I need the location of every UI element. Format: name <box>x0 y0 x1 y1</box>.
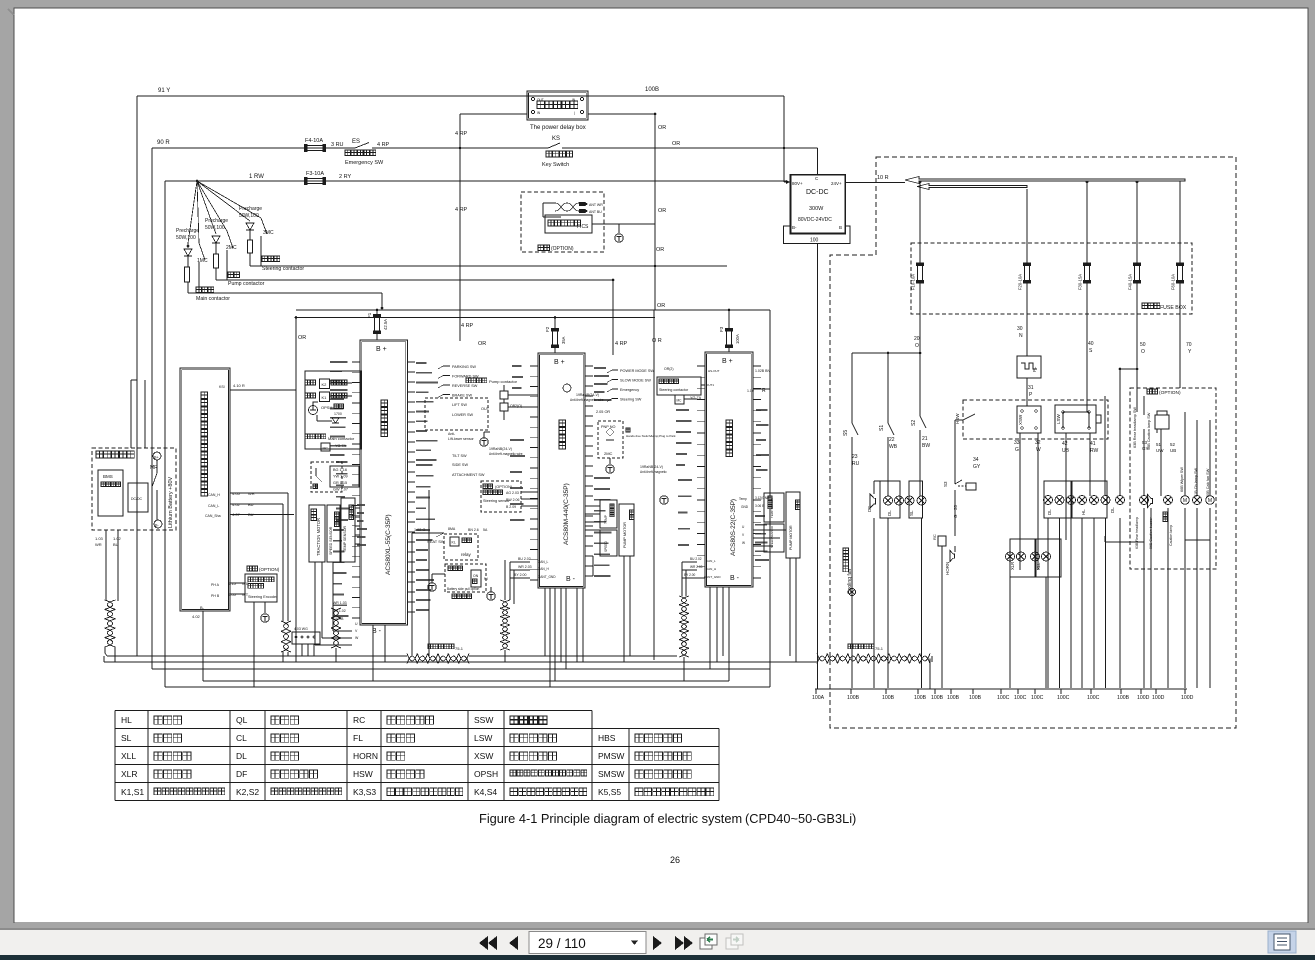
horn speaker <box>950 551 955 562</box>
temp sensor box <box>341 498 355 562</box>
precharge branch steering contactor <box>197 181 250 221</box>
svg-text:100D: 100D <box>1181 695 1194 701</box>
svg-text:21: 21 <box>922 436 928 442</box>
svg-text:F40-15A: F40-15A <box>1128 274 1133 290</box>
svg-text:DC/DC: DC/DC <box>131 497 143 501</box>
wire top bus right segment <box>588 95 784 97</box>
svg-text:Pump contactor: Pump contactor <box>489 379 518 384</box>
svg-text:DF: DF <box>236 769 247 779</box>
svg-text:63B Rear headlamp: 63B Rear headlamp <box>1135 517 1139 549</box>
lithium battery assembly dashed box <box>92 448 176 530</box>
node 1RW fanout <box>196 180 199 183</box>
junction dots right <box>887 352 1122 371</box>
svg-text:4 RP: 4 RP <box>461 323 474 329</box>
headlamp group DL HL <box>1044 481 1071 518</box>
svg-text:B-: B- <box>200 605 205 610</box>
svg-text:CAN_H: CAN_H <box>706 567 716 571</box>
toolbar prev page button <box>509 936 518 950</box>
svg-text:4.05: 4.05 <box>232 491 241 496</box>
svg-text:O R: O R <box>652 338 662 344</box>
FICS option label <box>538 245 550 251</box>
contact 3MC <box>197 181 261 218</box>
svg-text:UW: UW <box>1156 448 1164 453</box>
svg-text:50: 50 <box>1140 342 1146 348</box>
battery CAN twisted pair <box>105 600 116 647</box>
svg-text:FICS: FICS <box>577 224 589 230</box>
svg-text:100A: 100A <box>812 695 825 701</box>
svg-text:75-1: 75-1 <box>875 646 884 651</box>
relay K2 box <box>320 379 330 389</box>
svg-text:PH B: PH B <box>211 594 220 598</box>
svg-text:WR: WR <box>95 542 102 547</box>
svg-text:4 RP: 4 RP <box>455 131 468 137</box>
controller U1 right pins <box>408 362 416 612</box>
lamp group DF DL SL <box>870 494 875 508</box>
svg-text:Emergency SW: Emergency SW <box>345 160 384 166</box>
svg-text:SEAT SW: SEAT SW <box>427 539 445 544</box>
svg-text:35: 35 <box>953 504 958 510</box>
svg-text:K2: K2 <box>322 382 328 387</box>
svg-text:MC: MC <box>323 447 329 451</box>
svg-text:50W,100: 50W,100 <box>176 235 196 241</box>
svg-text:The power delay box: The power delay box <box>530 125 586 131</box>
svg-text:1.10: 1.10 <box>747 389 754 393</box>
svg-text:relay: relay <box>461 552 472 557</box>
controller U3 vertical label <box>726 420 733 457</box>
svg-text:Steering contactor: Steering contactor <box>659 388 689 392</box>
svg-text:WR 2.03: WR 2.03 <box>690 565 703 569</box>
OPSH pressure switch <box>309 406 318 415</box>
pump contactor label <box>228 272 240 278</box>
controller U2 right pins <box>585 366 593 576</box>
U3 B- wire down <box>728 587 730 681</box>
DC-DC output extension <box>784 226 850 244</box>
svg-text:OUT: OUT <box>481 407 490 411</box>
ground symbols seat cluster <box>428 583 436 591</box>
svg-text:4 RP: 4 RP <box>455 207 468 213</box>
svg-text:100: 100 <box>810 238 819 244</box>
svg-text:WR 1.03: WR 1.03 <box>333 601 347 605</box>
rail x770 down <box>769 310 771 687</box>
contactor coil 1MC box <box>321 443 330 451</box>
svg-text:75-1: 75-1 <box>455 646 464 651</box>
coil below traction <box>331 608 341 648</box>
U2 bottom wire <box>560 588 562 662</box>
svg-text:1700: 1700 <box>334 412 342 416</box>
svg-text:Lift-lower sensor: Lift-lower sensor <box>448 437 475 441</box>
resistor RC <box>938 536 946 546</box>
toolbar first page button <box>479 936 497 950</box>
svg-text:50W,100: 50W,100 <box>239 213 259 219</box>
svg-text:26: 26 <box>670 855 680 865</box>
svg-text:WR: WR <box>248 491 255 496</box>
OR rail U3 <box>653 310 655 660</box>
svg-text:100C: 100C <box>1087 695 1100 701</box>
fuse F4-10A <box>307 146 323 151</box>
svg-text:OR: OR <box>478 341 486 347</box>
wire seat switch <box>412 532 444 534</box>
svg-text:ACS80XL-55(C-35P): ACS80XL-55(C-35P) <box>385 514 392 575</box>
svg-text:Key Switch: Key Switch <box>542 162 569 168</box>
svg-text:PUMP MOTOR: PUMP MOTOR <box>623 522 627 548</box>
key switch KS contact <box>548 143 560 148</box>
relay K1 box <box>320 392 330 402</box>
svg-text:OR: OR <box>658 208 666 214</box>
wires below switch group <box>1019 433 1021 570</box>
svg-text:LIFT SW: LIFT SW <box>452 403 467 407</box>
svg-text:CAN_L: CAN_L <box>706 559 716 563</box>
fuse box dashed <box>911 243 1192 314</box>
svg-text:S2: S2 <box>911 420 917 426</box>
svg-text:KL: KL <box>452 541 456 545</box>
svg-text:B -: B - <box>566 576 576 583</box>
traction motor box <box>309 505 325 562</box>
svg-text:24V+: 24V+ <box>831 181 842 186</box>
wire into DC-DC C pin <box>817 148 819 175</box>
svg-text:4 RP: 4 RP <box>377 142 390 148</box>
svg-text:53: 53 <box>1142 440 1148 445</box>
lamp group wires down <box>873 518 875 688</box>
verticals from controllers to bus <box>295 660 297 662</box>
svg-text:K4,S4: K4,S4 <box>474 787 497 797</box>
pump motor sensor boxes <box>600 500 617 528</box>
svg-text:HSW: HSW <box>955 413 960 424</box>
svg-text:60B Cab fan SW: 60B Cab fan SW <box>1206 468 1210 497</box>
svg-text:DL: DL <box>1110 507 1115 513</box>
controller U2 pump box <box>538 353 585 588</box>
bottom node labels <box>815 689 817 694</box>
wire 70 Y rail <box>1179 281 1181 388</box>
svg-text:FL: FL <box>1032 366 1037 372</box>
svg-text:OR: OR <box>298 335 306 341</box>
svg-text:29 / 110: 29 / 110 <box>538 936 586 951</box>
svg-text:WB: WB <box>889 444 898 450</box>
svg-text:RU: RU <box>852 461 860 467</box>
FICS ground <box>615 234 623 242</box>
svg-text:Anti-theft-magnetic wire: Anti-theft-magnetic wire <box>570 398 604 402</box>
svg-text:GY: GY <box>973 464 981 470</box>
svg-text:SSW: SSW <box>474 715 493 725</box>
bottom bus 3 <box>152 668 770 670</box>
svg-text:Battery side pull option: Battery side pull option <box>447 587 479 591</box>
svg-text:ANT BU: ANT BU <box>589 210 602 214</box>
svg-text:100C: 100C <box>1031 695 1044 701</box>
svg-text:XLR: XLR <box>121 769 138 779</box>
turn lamp pair XLL <box>1035 539 1061 577</box>
interlock dashed box <box>311 462 342 492</box>
svg-text:TEMP: TEMP <box>604 515 608 524</box>
svg-text:B -: B - <box>730 575 740 582</box>
svg-text:DC-DC: DC-DC <box>806 189 829 196</box>
svg-text:4.05: 4.05 <box>228 592 237 597</box>
svg-text:PUMP MOTOR: PUMP MOTOR <box>789 525 793 550</box>
svg-text:DL: DL <box>1047 509 1052 515</box>
bus arrow main <box>905 177 1185 184</box>
verticals under U3 <box>709 587 711 669</box>
svg-text:100B: 100B <box>931 695 944 701</box>
battery terminals <box>153 452 161 460</box>
svg-text:BRAKE SW: BRAKE SW <box>452 394 472 398</box>
page number input <box>529 932 646 954</box>
switch S2 <box>919 414 921 416</box>
fuse F20-10A <box>1025 266 1030 281</box>
bus verticals left <box>103 656 105 662</box>
svg-text:F10-10A: F10-10A <box>911 274 916 290</box>
svg-text:Steering contactor: Steering contactor <box>262 266 304 272</box>
svg-text:Emergency: Emergency <box>620 388 639 392</box>
svg-text:BG 1.16: BG 1.16 <box>333 468 347 472</box>
svg-text:HL: HL <box>121 715 132 725</box>
svg-text:SPEED: SPEED <box>604 540 608 552</box>
svg-text:23: 23 <box>852 454 858 460</box>
contact 1MC <box>197 181 199 243</box>
svg-text:42: 42 <box>1062 441 1068 447</box>
svg-text:4.15: 4.15 <box>228 581 237 586</box>
svg-text:100D: 100D <box>1137 695 1150 701</box>
diode pair <box>332 418 339 423</box>
flasher FL box <box>1017 356 1041 378</box>
svg-text:RW: RW <box>1090 448 1099 454</box>
svg-text:XLL: XLL <box>121 751 136 761</box>
svg-text:BY 2.00: BY 2.00 <box>514 573 526 577</box>
PNP ground <box>606 465 614 473</box>
wire branch to S5 <box>852 352 920 354</box>
controller U3 steering box <box>705 352 753 587</box>
svg-text:OUT1: OUT1 <box>706 383 714 387</box>
svg-text:3.06 B: 3.06 B <box>755 504 764 508</box>
svg-text:POWER MODE SW: POWER MODE SW <box>620 369 654 373</box>
svg-text:CANT_GND: CANT_GND <box>538 575 556 579</box>
svg-text:CAN_Sha: CAN_Sha <box>205 514 221 518</box>
svg-text:MC: MC <box>677 399 683 403</box>
traction motor bottom wires <box>314 562 316 645</box>
svg-text:100D: 100D <box>1152 695 1165 701</box>
ferrite chain right <box>817 654 930 664</box>
svg-text:3MC: 3MC <box>263 230 274 236</box>
switch box LSW <box>1055 405 1096 433</box>
svg-text:SMSW: SMSW <box>598 769 624 779</box>
sidebar toggle button right <box>1268 931 1296 953</box>
toolbar prev view icon <box>700 934 717 949</box>
lamp DL single <box>1116 496 1125 505</box>
svg-text:1.03: 1.03 <box>95 536 104 541</box>
fuse F40-15A <box>1135 266 1140 281</box>
bus arrow secondary <box>917 184 1027 190</box>
svg-text:F20-10A: F20-10A <box>1018 274 1023 290</box>
svg-text:K1: K1 <box>322 395 328 400</box>
display vertical label <box>201 392 208 496</box>
svg-text:Precharge: Precharge <box>205 218 228 224</box>
fuse F1 42.5A <box>375 317 380 331</box>
svg-text:BU: BU <box>248 502 254 507</box>
svg-text:34: 34 <box>973 457 979 463</box>
svg-text:XLL: XLL <box>1036 562 1041 570</box>
svg-text:Figure 4-1 Principle diagram o: Figure 4-1 Principle diagram of electric… <box>479 811 742 826</box>
BMS box <box>98 470 123 516</box>
toolbar next view icon disabled <box>726 934 743 949</box>
wire 40 S rail <box>1086 281 1088 412</box>
svg-text:2 RY: 2 RY <box>339 174 351 180</box>
svg-text:Hands-free Switch&amp;Plug to: Hands-free Switch&amp;Plug to Park <box>626 434 676 438</box>
svg-text:B +: B + <box>554 359 565 366</box>
svg-text:W: W <box>1036 447 1041 453</box>
svg-text:40: 40 <box>1088 341 1094 347</box>
switch S5 <box>851 421 853 423</box>
svg-text:HL: HL <box>1081 509 1086 515</box>
svg-text:100B: 100B <box>645 87 659 93</box>
DCDC small box <box>128 483 148 512</box>
option vertical wires <box>1143 429 1145 496</box>
svg-text:BU 2.02: BU 2.02 <box>518 557 531 561</box>
svg-text:F3-10A: F3-10A <box>306 171 324 177</box>
svg-text:SPEED SENSOR: SPEED SENSOR <box>329 526 333 555</box>
switch box XSW <box>1017 406 1041 433</box>
fuse F3 100A <box>727 331 732 345</box>
svg-text:(OPTION): (OPTION) <box>259 567 280 572</box>
wire power delay bottom <box>460 113 527 115</box>
svg-text:HS-OUT: HS-OUT <box>708 369 720 373</box>
svg-text:B +: B + <box>722 358 733 365</box>
svg-text:(CPD40~50-GB3Li): (CPD40~50-GB3Li) <box>745 811 856 826</box>
bus connect right chain <box>931 656 933 662</box>
svg-text:GND: GND <box>741 505 749 509</box>
status bar bottom <box>0 955 1315 960</box>
svg-text:G: G <box>1015 447 1019 453</box>
steering encoder ground <box>261 614 269 622</box>
svg-text:100C: 100C <box>1014 695 1027 701</box>
svg-text:OR(2): OR(2) <box>664 367 674 371</box>
svg-text:CAN_H: CAN_H <box>208 493 220 497</box>
svg-text:YG 7A: YG 7A <box>690 396 702 400</box>
svg-text:SPEED SENSOR: SPEED SENSOR <box>770 526 774 548</box>
svg-text:96B Caution lamp SW: 96B Caution lamp SW <box>1147 412 1151 450</box>
caution lamp group <box>1140 496 1149 505</box>
svg-text:CL: CL <box>236 733 247 743</box>
svg-text:B-: B- <box>792 225 797 230</box>
wire FICS to OR rail <box>604 223 655 225</box>
controller U1 traction box <box>360 340 408 625</box>
svg-text:42.5A: 42.5A <box>383 319 388 330</box>
speed sensor box <box>327 505 340 562</box>
U2 right pin rows mid <box>594 478 611 576</box>
fuse F30-15A <box>1085 266 1090 281</box>
svg-text:35A: 35A <box>561 336 566 344</box>
svg-text:41: 41 <box>1090 441 1096 447</box>
svg-text:OR: OR <box>656 247 664 253</box>
fuse F3-10A <box>307 179 323 184</box>
svg-text:Steering Encoder: Steering Encoder <box>248 595 278 599</box>
svg-text:19RaNB(24-V): 19RaNB(24-V) <box>489 447 512 451</box>
svg-text:SL: SL <box>121 733 132 743</box>
bottom bus 5 <box>165 686 770 688</box>
option dashed box right <box>1130 388 1216 569</box>
svg-text:Anti-: Anti- <box>448 432 456 436</box>
svg-text:SL: SL <box>909 510 914 516</box>
svg-text:ATTACHMENT SW: ATTACHMENT SW <box>452 473 485 477</box>
svg-text:100A: 100A <box>735 334 740 344</box>
svg-text:2MC: 2MC <box>604 451 613 456</box>
pump motor wires down mid <box>623 556 625 662</box>
svg-text:4.02: 4.02 <box>232 502 241 507</box>
wire left rail 1RW down <box>164 181 166 687</box>
toolbar background <box>0 923 1315 930</box>
svg-text:XLR: XLR <box>1010 562 1015 570</box>
wire pump contactor to right <box>227 279 613 281</box>
contact 2MC <box>197 181 227 231</box>
fuse F10-10A <box>918 266 923 281</box>
svg-text:DL: DL <box>236 751 247 761</box>
option relay block <box>1155 415 1169 429</box>
svg-text:CAN_L: CAN_L <box>538 560 549 564</box>
svg-text:TEMP SENSOR: TEMP SENSOR <box>770 498 774 518</box>
OR rail right of delay box <box>654 114 656 310</box>
svg-text:K3,S3: K3,S3 <box>353 787 376 797</box>
svg-text:1.02 G: 1.02 G <box>414 528 425 532</box>
svg-text:33: 33 <box>1014 440 1020 446</box>
svg-text:F2: F2 <box>545 326 550 332</box>
FICS option dashed box <box>521 192 604 252</box>
power delay box <box>527 91 588 120</box>
svg-text:F30-15A: F30-15A <box>1078 274 1083 290</box>
svg-text:AG 2.03: AG 2.03 <box>506 491 519 495</box>
svg-text:ACS80M-440(C-35P): ACS80M-440(C-35P) <box>563 483 570 545</box>
svg-text:PNP NO: PNP NO <box>601 425 616 429</box>
wire 20 O rail <box>919 281 921 416</box>
U3 coil bottom <box>679 596 689 657</box>
svg-text:W: W <box>742 541 745 545</box>
pump motor wires down right <box>789 558 791 656</box>
svg-text:Pump contactor: Pump contactor <box>228 281 265 287</box>
controller U1 left pins <box>352 362 360 618</box>
svg-text:O: O <box>1141 349 1145 355</box>
wire left rail 91Y down <box>136 96 138 656</box>
svg-text:CAN_L: CAN_L <box>208 504 219 508</box>
wires battery top to bus <box>130 380 132 448</box>
svg-text:70: 70 <box>1186 342 1192 348</box>
toolbar next page button <box>653 936 662 950</box>
anti-theft ground <box>480 438 488 446</box>
svg-text:100B: 100B <box>1117 695 1130 701</box>
svg-text:M: M <box>1183 498 1187 504</box>
svg-text:OR: OR <box>672 141 680 147</box>
bottom bus 4 <box>203 680 729 682</box>
svg-text:90 R: 90 R <box>157 140 170 146</box>
svg-text:(OPTION): (OPTION) <box>551 246 574 252</box>
svg-text:31: 31 <box>1028 385 1034 391</box>
svg-text:F4-10A: F4-10A <box>305 138 323 144</box>
svg-text:4.10 R: 4.10 R <box>233 383 245 388</box>
ferrite chain left <box>407 654 469 664</box>
wiper motor + cab lamp + fan <box>1181 496 1190 505</box>
rail 100A from DC-DC output <box>817 244 819 690</box>
svg-text:OR: OR <box>658 125 666 131</box>
fuse F2 35A <box>553 331 558 345</box>
svg-text:OPSH: OPSH <box>321 405 332 410</box>
svg-text:UB: UB <box>1170 448 1176 453</box>
svg-text:100B: 100B <box>947 695 960 701</box>
wire vertical to DC-DC input <box>783 96 785 182</box>
traction motor wires <box>357 505 367 545</box>
svg-text:CANT_GND: CANT_GND <box>704 575 721 579</box>
steering contactor label <box>262 256 280 262</box>
svg-text:RC: RC <box>932 534 937 540</box>
option crossbar wires <box>1105 541 1144 543</box>
svg-text:RC: RC <box>353 715 365 725</box>
svg-text:22: 22 <box>889 437 895 443</box>
svg-text:50W,100: 50W,100 <box>205 225 225 231</box>
svg-text:KSI: KSI <box>219 385 225 389</box>
svg-text:OPSH: OPSH <box>474 769 498 779</box>
